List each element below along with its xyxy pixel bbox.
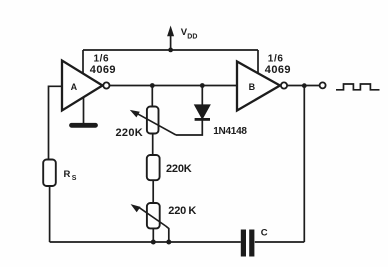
node junction A-out to pot chain bbox=[150, 83, 155, 88]
capacitor C bbox=[243, 230, 251, 257]
svg-text:1/6: 1/6 bbox=[268, 53, 284, 64]
wire R2 to R3 bbox=[152, 180, 154, 203]
wire top power rail bbox=[83, 49, 258, 51]
label VDD bbox=[181, 27, 198, 40]
wire R1 wiper to diode cathode bbox=[176, 121, 202, 136]
potentiometer R3 220K body bbox=[147, 203, 160, 228]
diode D1 1N4148 bbox=[195, 105, 210, 120]
wire input A bbox=[49, 86, 63, 159]
svg-text:1/6: 1/6 bbox=[94, 53, 110, 64]
potentiometer R1 arrow bbox=[130, 110, 176, 135]
wire RS to bottom rail bbox=[49, 186, 51, 242]
svg-text:K: K bbox=[188, 205, 196, 217]
wire diode anode stub bbox=[201, 86, 203, 106]
svg-text:R: R bbox=[64, 169, 71, 180]
svg-text:220K: 220K bbox=[116, 127, 144, 139]
svg-text:DD: DD bbox=[187, 34, 197, 41]
output terminal circle bbox=[320, 82, 326, 88]
resistor RS bbox=[43, 160, 56, 187]
wire power stub to inverter A bbox=[82, 50, 84, 73]
svg-text:1N4148: 1N4148 bbox=[213, 126, 247, 137]
wire bottom rail right bbox=[255, 241, 304, 243]
node junction A-out to diode bbox=[200, 83, 205, 88]
potentiometer R1 220K body bbox=[147, 107, 159, 134]
label 1/6 4069 for A bbox=[90, 53, 116, 76]
svg-text:A: A bbox=[71, 82, 78, 92]
wire bottom rail left bbox=[50, 241, 241, 243]
label RS bbox=[64, 169, 77, 182]
ground bbox=[72, 98, 96, 126]
op-amp U2 inverter B bbox=[237, 62, 280, 111]
potentiometer R3 arrow bbox=[131, 204, 166, 226]
wire R3 bottom to rail bbox=[152, 228, 154, 242]
output bubble B bbox=[281, 82, 287, 88]
VDD supply arrow bbox=[167, 26, 174, 53]
svg-text:B: B bbox=[249, 82, 256, 92]
svg-text:4069: 4069 bbox=[90, 64, 116, 76]
op-amp U1 inverter A bbox=[62, 61, 103, 111]
node chain to rail bbox=[151, 240, 156, 245]
node B output junction bbox=[302, 83, 307, 88]
square wave symbol bbox=[336, 84, 380, 90]
node wiper to rail bbox=[166, 240, 171, 245]
wire R3 wiper to bottom rail bbox=[166, 226, 169, 242]
svg-text:S: S bbox=[72, 175, 77, 182]
resistor R2 220K bbox=[147, 155, 160, 180]
wire power stub to inverter B bbox=[257, 50, 259, 73]
label 1/6 4069 for B bbox=[265, 53, 291, 76]
svg-text:220K: 220K bbox=[166, 163, 192, 175]
svg-text:220: 220 bbox=[168, 205, 186, 217]
output bubble A bbox=[103, 82, 109, 88]
svg-text:C: C bbox=[261, 227, 268, 238]
wire R1 to R2 bbox=[152, 134, 154, 156]
wire down to pot R1 bbox=[151, 86, 153, 107]
svg-text:4069: 4069 bbox=[265, 64, 291, 76]
wire feedback vertical right bbox=[303, 86, 305, 242]
wire A output to B input bbox=[110, 85, 238, 87]
wire B output bbox=[287, 85, 319, 87]
